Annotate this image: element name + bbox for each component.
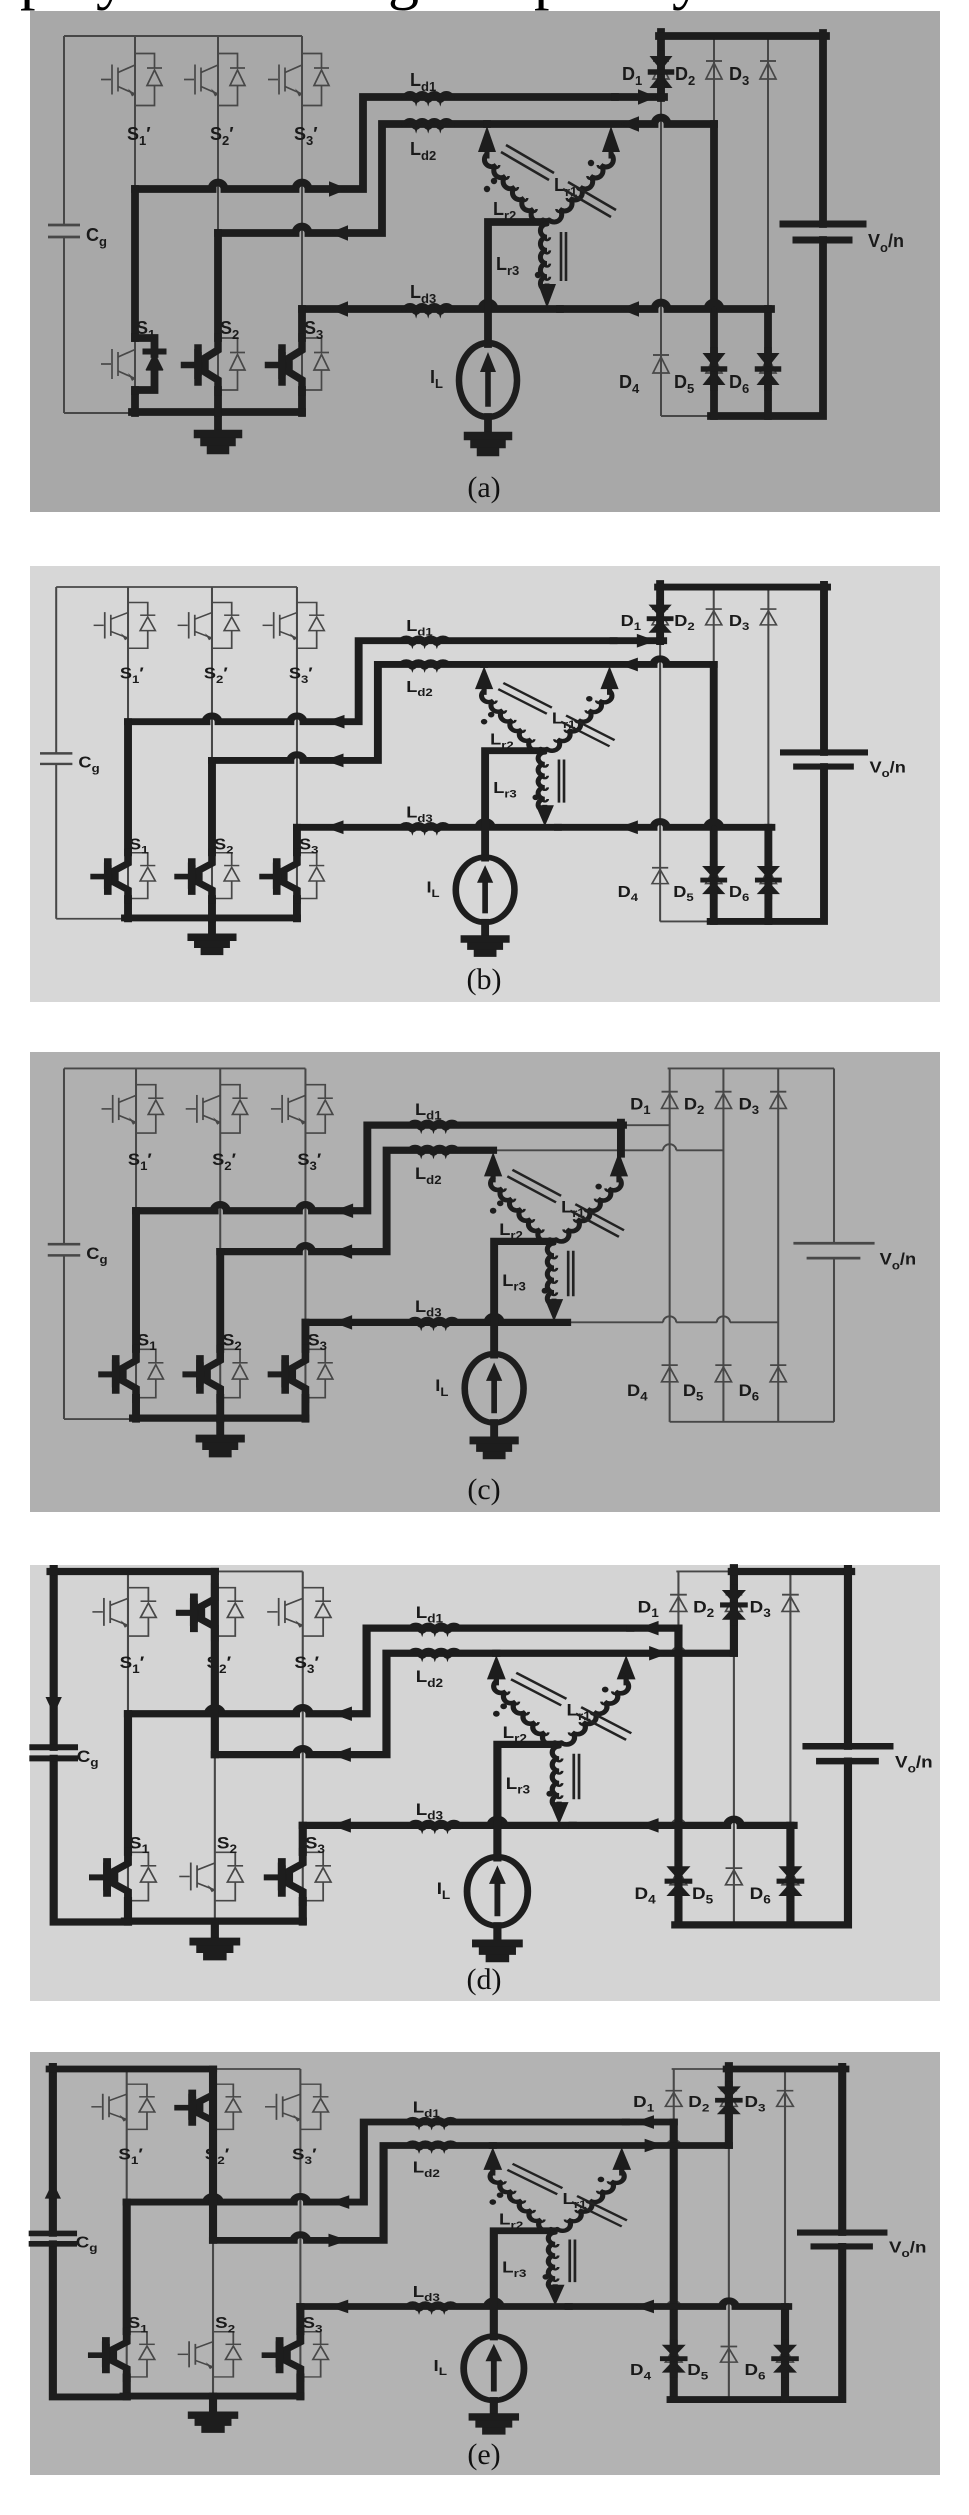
capacitor Vo/n plates bold: [806, 1743, 890, 1750]
svg-text:(e): (e): [467, 2438, 500, 2471]
arrow phase2 (left): [331, 1747, 351, 1762]
wire: Ld2 bold run to D2 leg with hop over D1 leg: [484, 659, 714, 665]
arrow Ld3 left end: [331, 1818, 351, 1833]
wire: Ld2-level link to D2 leg: [493, 2142, 729, 2150]
arrow Ld2 (left): [619, 658, 638, 672]
arrow phase2 (left): [329, 225, 348, 241]
circuit base (thin network, coils, IL source, grounds): [48, 1068, 916, 1455]
wire: leg2 bold lower section: [216, 1252, 224, 1419]
wire: leg2 bold upper section: [209, 2069, 217, 2240]
diode of S1 conducting: [135, 337, 155, 354]
wire: Ld1 bold to D1 junction: [614, 637, 664, 645]
arrow on Cg branch (up): [45, 2182, 61, 2199]
wire: Ld1 bold to D1 leg: [626, 2118, 674, 2126]
capacitor Vo/n plates bold: [801, 2229, 884, 2236]
wire: D1/D4 leg bold section: [670, 2122, 678, 2306]
transistor S2' bold (conducting): [200, 2083, 214, 2131]
capacitor Vo/n plates bold: [783, 221, 863, 228]
arrow Ld2 (right): [645, 2139, 665, 2153]
wire: output right rail bold (lower) + bottom return: [671, 2246, 843, 2399]
arrow Ld1 (left): [634, 2115, 654, 2129]
transistor S2 bold (conducting): [207, 1348, 220, 1399]
arrow Ld3 left end: [333, 1315, 352, 1330]
wire: Lr1 riser to Ld1 elbow: [617, 1122, 625, 1154]
wire: output right rail bold (upper): [838, 2066, 846, 2232]
svg-text:(d): (d): [467, 1963, 502, 1996]
wire: Ld3 bold run, junction at D1 leg, hop over D2 leg: [573, 1819, 794, 1825]
wire: D1/D4 leg bold section: [675, 1628, 683, 1825]
wire: Cg loop bold: [53, 2066, 127, 2397]
capacitor Cg plates bold: [33, 1744, 75, 1751]
wire: rectifier top rail bold: [658, 583, 827, 591]
arrow phase2 (left): [324, 754, 343, 768]
wire: output right rail bold (lower) + bottom return: [711, 240, 823, 416]
wire: leg2 bold upper section: [211, 1571, 219, 1754]
arrow Ld3 right end: [619, 820, 638, 834]
diode D4 conducting + leg: [675, 1825, 683, 1925]
diode D4 conducting + leg: [670, 2306, 678, 2399]
arrow on Cg branch (down): [46, 1697, 62, 1715]
circuit base (thin network, coils, IL source, grounds): [40, 587, 906, 953]
transistor S1 bold: [115, 852, 128, 900]
arrow Ld3 right end: [639, 1818, 659, 1833]
wire: output right rail bold (upper): [844, 1569, 852, 1747]
wire: leg2 bold lower section: [214, 233, 222, 413]
diode D2 conducting + leg: [725, 2065, 733, 2145]
diode D2 conducting + leg: [730, 1568, 738, 1654]
panel (b) background: [30, 566, 940, 1002]
arrow Ld1 (left): [639, 1621, 659, 1636]
arrow Ld3 left end: [329, 301, 348, 317]
arrow phase2 (left): [333, 1244, 352, 1259]
svg-text:(a): (a): [467, 471, 500, 504]
wire: Ld2 bold run to D2 leg with hop over D1 leg: [487, 118, 714, 124]
wire: Ld3 bold run with hops: [560, 303, 771, 310]
panel (a) background: [30, 11, 940, 512]
capacitor Vo/n plates bold: [784, 749, 865, 756]
diode D6 conducting + leg: [781, 2306, 789, 2399]
circuit base (thin network, coils, IL source, grounds): [36, 2069, 926, 2431]
svg-text:y: y: [672, 0, 703, 11]
capacitor Cg plates bold: [32, 2230, 74, 2237]
wire: rectifier top rail bold right part: [727, 2065, 846, 2073]
wire: top rail bold left part: [51, 1568, 215, 1576]
arrow phase1 (left): [334, 1203, 353, 1218]
arrow Ld1 (right): [638, 89, 657, 105]
diode D1 conducting: [657, 32, 665, 98]
panel (e) background: [30, 2052, 940, 2475]
diode D6 conducting + leg: [787, 1825, 795, 1925]
wire: output right rail bold (upper): [820, 584, 828, 752]
wire: rectifier top rail bold right part: [732, 1568, 851, 1576]
arrow Ld3 right end: [620, 301, 639, 317]
circuit base (thin network, coils, IL source, grounds): [37, 1571, 933, 1958]
svg-text:p: p: [534, 0, 565, 11]
svg-text:(c): (c): [467, 1473, 500, 1506]
arrow phase2 (right): [328, 2234, 348, 2248]
arrow Ld3 right end: [634, 2300, 654, 2314]
wire: Ld1 bold to D1 leg: [630, 1624, 678, 1632]
wire: output right rail bold (lower) + bottom return: [675, 1761, 848, 1925]
arrow phase1 (left): [332, 1706, 352, 1721]
circuit base (thin network, coils, IL source, grounds): [48, 36, 904, 452]
wire: rectifier top rail bold: [659, 32, 826, 40]
arrow Ld2 (left): [620, 116, 639, 132]
arrow phase1 (left): [330, 2195, 350, 2209]
arrow phase1 (right): [329, 181, 348, 197]
diode D6 conducting + leg: [764, 309, 772, 416]
wire: Ld3 bold run with hops: [558, 822, 771, 828]
wire: Ld1 bold to D1 junction: [615, 93, 664, 101]
diode D5 conducting + leg: [710, 124, 718, 416]
wire: Ld3 bold run, junction at D1 leg, hop over D2 leg: [569, 2301, 788, 2307]
transistor S2' bold (conducting): [201, 1587, 215, 1638]
wire: output right rail bold (upper): [819, 33, 827, 224]
wire: leg2 bold lower section: [208, 760, 216, 918]
svg-text:y: y: [96, 0, 127, 11]
diode D5 conducting + leg: [710, 664, 718, 921]
wire: Cg loop bold: [54, 1569, 128, 1922]
transistor S1 bold: [113, 2331, 127, 2379]
transistor S2 bold (conducting): [199, 852, 212, 900]
wire: output right rail bold (lower) + bottom return: [711, 767, 824, 922]
diode D6 conducting + leg: [764, 827, 772, 921]
panel (d) background: [30, 1565, 940, 2001]
transistor S2 bold (conducting): [205, 337, 218, 392]
panel (c) background: [30, 1052, 940, 1512]
transistor S1 bold: [123, 1348, 136, 1399]
wire: Ld2-level link to D2 leg: [496, 1649, 734, 1657]
diode D1 conducting: [656, 584, 664, 642]
arrow Ld3 left end: [328, 2300, 348, 2314]
svg-text:(b): (b): [467, 963, 502, 996]
arrow phase1 (left): [325, 715, 344, 729]
arrow Ld3 left end: [324, 820, 343, 834]
svg-text:p: p: [20, 0, 51, 11]
wire: top rail bold left part: [50, 2065, 213, 2073]
arrow Ld2 (right): [649, 1646, 669, 1661]
transistor S1 bold: [114, 1851, 128, 1902]
arrow Ld1 (right): [637, 634, 656, 648]
svg-text:g: g: [388, 0, 419, 11]
